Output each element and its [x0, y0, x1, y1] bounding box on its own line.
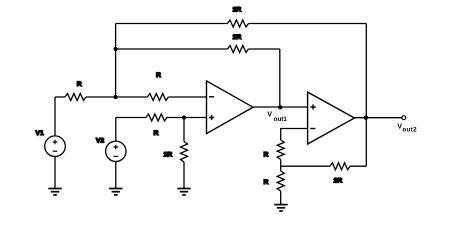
svg-text:V: V [267, 110, 272, 119]
wire: U2 output to terminal [355, 117, 402, 119]
resistor 2R (shunt to ground) [181, 142, 188, 162]
wire: U1 output to U2 non-inverting input [253, 106, 307, 108]
svg-text:out1: out1 [274, 116, 288, 123]
wire: 2R shunt bottom lead [183, 162, 185, 189]
node Vout1 [278, 105, 282, 109]
wire: top feedback line left segment [116, 23, 228, 25]
svg-text:2R: 2R [164, 152, 173, 159]
resistor R (non-inverting input series) [146, 114, 167, 121]
resistor 2R (top feedback) [228, 20, 249, 27]
wire: V1 bottom lead [54, 157, 56, 189]
resistor 2R (second feedback) [228, 46, 249, 53]
resistor 2R (U2 feedback) [330, 163, 350, 170]
svg-text:V2: V2 [96, 138, 105, 145]
svg-text:R: R [154, 130, 159, 137]
op-amp U2 [308, 92, 355, 144]
svg-text:R: R [264, 151, 269, 158]
wire: non-inverting line to op-amp U1 [166, 117, 206, 119]
wire: V2 bottom lead [115, 162, 117, 189]
resistor R (upper, feedback divider) [277, 140, 284, 159]
op-amp U1 [207, 81, 254, 134]
wire: inverting line to op-amp U1 [168, 96, 206, 98]
ground (V2) [109, 189, 122, 195]
ground (V1) [48, 189, 61, 195]
wire: V1 top lead [54, 97, 56, 136]
wire: 2R shunt top lead [183, 118, 185, 142]
svg-text:2R: 2R [233, 6, 242, 13]
wire: vertical from second feedback down to node Vout1 [279, 49, 281, 107]
svg-text:2R: 2R [334, 177, 343, 184]
node junction on non-inverting line [182, 115, 186, 119]
terminal Vout2 (open circle) [402, 116, 406, 120]
wire: U2 inverting input lead [281, 129, 307, 141]
wire: 2R feedback bottom line right segment [350, 165, 366, 167]
wire: inverting input line from V1 [55, 96, 65, 98]
resistor R (inverting input series) [147, 94, 168, 101]
resistor R (V1 series) [65, 94, 86, 101]
node junction on inverting line [114, 95, 118, 99]
wire: divider middle segment [280, 160, 282, 172]
svg-text:R: R [156, 72, 161, 79]
svg-text:R: R [77, 81, 82, 88]
wire: top feedback line right segment [249, 23, 367, 25]
wire: left vertical joining feedback lines to inverting input line [115, 24, 117, 98]
source V1 [45, 136, 66, 157]
wire: divider bottom lead [280, 191, 282, 205]
node: U2 output junction [364, 116, 368, 120]
svg-text:2R: 2R [233, 34, 242, 41]
svg-text:R: R [264, 179, 269, 186]
wire: V2 top lead [115, 118, 117, 142]
wire: non-inverting input line from V2 [116, 117, 146, 119]
wire: 2R feedback bottom line left segment [281, 165, 330, 167]
node junction on second feedback line [114, 47, 118, 51]
wire: second feedback line right segment [249, 48, 280, 50]
wire: second feedback line left segment [116, 48, 228, 50]
wire: right vertical from top feedback down to 2R bottom line [365, 24, 367, 167]
ground (divider) [274, 205, 287, 211]
source V2 [106, 141, 126, 161]
resistor R (lower, divider to ground) [277, 171, 284, 191]
wire: inverting line middle segment [86, 96, 147, 98]
svg-text:out2: out2 [402, 127, 417, 134]
svg-text:V1: V1 [35, 130, 44, 137]
ground (2R shunt) [177, 189, 190, 195]
